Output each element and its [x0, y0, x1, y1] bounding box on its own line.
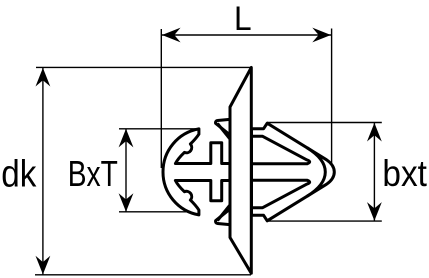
- svg-text:BxT: BxT: [68, 153, 118, 194]
- expanding legs silhouette (right): [252, 123, 335, 221]
- barb leaf bottom inner edge: [218, 205, 231, 221]
- extension line bxt bottom: [267, 220, 382, 222]
- extension line bxt top: [267, 122, 382, 124]
- arrowhead L left: [162, 28, 181, 43]
- legs inner edge upper: [252, 136, 310, 163]
- dimension line dk: [42, 68, 44, 274]
- arrowhead dk bottom: [36, 256, 51, 275]
- extension line dk bottom: [35, 274, 251, 276]
- legs inner apex curve: [307, 148, 325, 197]
- barb leaf top (left of disc): [216, 119, 231, 136]
- arrowhead dk top: [36, 68, 51, 87]
- extension line BxT top: [119, 128, 199, 130]
- extension line BxT bottom: [119, 211, 194, 213]
- arrowhead bxt top: [367, 123, 382, 142]
- extension line L left: [160, 29, 162, 168]
- legs inner edge lower: [252, 180, 310, 207]
- dimension line BxT: [125, 129, 127, 212]
- barb leaf top inner edge: [218, 124, 231, 140]
- arrowhead L right: [312, 28, 331, 43]
- extension line L right: [331, 29, 333, 170]
- dimension line bxt: [373, 123, 375, 221]
- dimension line L: [162, 34, 331, 36]
- svg-text:bxt: bxt: [382, 153, 427, 194]
- countersunk head disc: [230, 68, 251, 274]
- rivet pin head: circle with notches and cross ribs (left assembly): [163, 129, 230, 215]
- arrowhead BxT top: [119, 129, 134, 148]
- svg-text:dk: dk: [1, 153, 37, 195]
- svg-text:L: L: [234, 0, 252, 38]
- arrowhead bxt bottom: [367, 202, 382, 221]
- extension line dk top: [36, 66, 252, 68]
- arrowhead BxT bottom: [119, 193, 134, 212]
- barb leaf bottom (left of disc): [216, 208, 231, 225]
